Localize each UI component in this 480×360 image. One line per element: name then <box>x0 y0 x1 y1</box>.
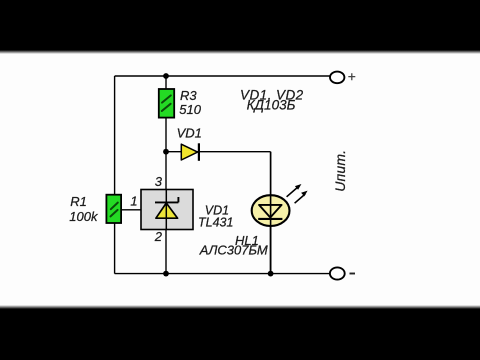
junction diode anode node <box>163 149 169 155</box>
letterbox bar bottom <box>0 305 480 310</box>
label VD1 (diode) <box>177 126 202 141</box>
svg-text:510: 510 <box>179 102 201 117</box>
wire top rail <box>115 75 330 77</box>
label Uпит. <box>332 150 348 192</box>
junction top rail / R3 <box>163 73 169 79</box>
terminal + <box>330 72 355 84</box>
svg-text:TL431: TL431 <box>198 216 233 230</box>
LED arrow 2 <box>295 191 308 204</box>
svg-text:100k: 100k <box>69 209 99 224</box>
terminal - <box>330 267 355 279</box>
label АЛС307БМ <box>199 242 268 257</box>
svg-text:КД103Б: КД103Б <box>247 97 296 112</box>
label R1 <box>70 194 87 209</box>
label pin 3 <box>155 174 163 189</box>
wire middle vertical upper (R3 / pin 3) <box>165 76 167 190</box>
LED HL1 <box>252 195 290 273</box>
shunt regulator U1 TL431 box <box>141 190 193 230</box>
svg-text:VD1: VD1 <box>177 126 202 141</box>
wire bottom rail <box>115 273 330 275</box>
svg-text:Uпит.: Uпит. <box>332 150 348 192</box>
wire left branch <box>114 76 116 274</box>
resistor R3 <box>159 89 174 118</box>
svg-text:2: 2 <box>154 229 163 244</box>
svg-text:АЛС307БМ: АЛС307БМ <box>199 242 268 257</box>
wire right branch vertical (LED) <box>270 152 272 274</box>
label TL431 <box>198 216 233 230</box>
wire pin 1 stub <box>121 209 142 211</box>
label R3 <box>180 88 197 103</box>
label HL1 <box>235 233 259 248</box>
label КД103Б <box>247 97 296 112</box>
wire diode branch horizontal <box>166 151 271 153</box>
svg-text:R3: R3 <box>180 88 197 103</box>
LED arrow 1 <box>287 184 302 197</box>
svg-text:1: 1 <box>130 194 137 209</box>
label 510 <box>179 102 201 117</box>
label VD1, VD2 <box>240 88 304 103</box>
svg-text:3: 3 <box>155 174 163 189</box>
label VD1 (TL431) <box>205 204 229 218</box>
wire middle vertical lower (pin 2) <box>165 230 167 274</box>
letterbox bar top <box>0 0 480 50</box>
junction bottom rail / LED <box>268 271 274 277</box>
svg-text:R1: R1 <box>70 194 87 209</box>
junction bottom rail / pin 2 <box>163 271 169 277</box>
diode VD1 <box>181 143 199 161</box>
label pin 2 <box>154 229 163 244</box>
label pin 1 <box>130 194 137 209</box>
resistor R1 <box>106 195 121 223</box>
label 100k <box>69 209 99 224</box>
